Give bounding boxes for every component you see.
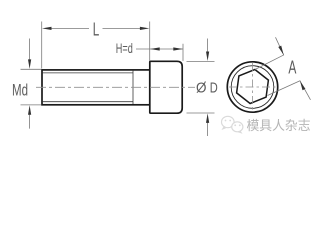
L arrow left (42, 27, 52, 30)
H=d extension line right (182, 44, 184, 61)
svg-text:L: L (93, 20, 100, 40)
A dimension line upper (276, 37, 284, 55)
head end view outer circle (227, 62, 277, 112)
A arrow lower (300, 81, 305, 90)
OD arrow top (206, 52, 209, 62)
thread minor diameter line bottom (43, 101, 133, 103)
H=d arrow right (173, 47, 183, 50)
big bubble tail (222, 127, 227, 131)
svg-text:D: D (210, 79, 218, 96)
A dimension line lower (300, 81, 311, 100)
watermark wechat icon small bubble (232, 122, 243, 132)
crosshair horizontal centerline (229, 86, 277, 88)
svg-text:H=d: H=d (116, 40, 133, 56)
A extension line upper (255, 55, 284, 70)
OD extension line bottom (187, 112, 215, 114)
svg-text:A: A (288, 57, 296, 77)
Md extension line top (21, 68, 42, 70)
OD dimension line top (207, 39, 209, 55)
H=d arrow left (150, 47, 160, 50)
svg-text:模具人杂志: 模具人杂志 (247, 118, 311, 133)
thread minor diameter line top (43, 72, 133, 74)
svg-text:Md: Md (12, 81, 28, 100)
svg-text:Ø: Ø (196, 79, 207, 96)
L dimension extension line right (149, 22, 151, 61)
screw head (side view) (150, 61, 182, 113)
OD dimension line bottom (207, 121, 209, 137)
Md dimension line bottom (29, 112, 31, 129)
thread end line (132, 71, 134, 104)
screw shaft (threaded body) (42, 70, 150, 105)
OD arrow bottom (206, 113, 209, 123)
L arrow right (140, 27, 150, 30)
H=d leader and dimension line (136, 48, 183, 50)
Md arrow top (28, 59, 31, 69)
crosshair vertical centerline (252, 63, 254, 111)
Md arrow bottom (28, 105, 31, 115)
OD extension line top (187, 60, 215, 62)
watermark wechat icon big bubble (222, 116, 235, 127)
small bubble eyes (234, 124, 236, 126)
centerline of screw axis (36, 86, 195, 88)
head end view chamfer circle (231, 66, 274, 109)
big bubble eyes (225, 120, 227, 122)
A extension line lower (268, 81, 301, 96)
Md dimension line top (29, 39, 31, 63)
Md extension line bottom (21, 104, 42, 106)
small bubble tail (238, 131, 243, 134)
L dimension line (50, 27, 89, 29)
A arrow upper (278, 46, 283, 55)
hex socket (237, 70, 269, 104)
L dimension extension line left (41, 22, 43, 69)
